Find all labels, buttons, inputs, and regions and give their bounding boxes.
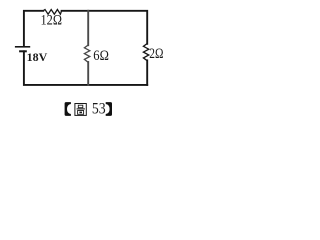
caption 圖 glyph middle stroke bbox=[77, 108, 85, 110]
wire middle branch top bbox=[87, 11, 89, 45]
wire left lower + bottom bbox=[24, 51, 147, 85]
svg-text:12Ω: 12Ω bbox=[41, 13, 63, 29]
svg-text:6Ω: 6Ω bbox=[93, 48, 109, 64]
wire right lower vertical bbox=[146, 60, 148, 85]
caption 圖 glyph bottom 回 bbox=[78, 111, 84, 115]
battery V1 short plate bbox=[20, 50, 26, 52]
wire top-right segment bbox=[62, 11, 148, 44]
svg-text:2Ω: 2Ω bbox=[149, 46, 163, 62]
caption 圖 glyph inner top 口 bbox=[78, 105, 83, 108]
caption right lenticular bracket 】 bbox=[106, 102, 112, 116]
wire middle branch bottom bbox=[87, 62, 89, 85]
resistor R1 12Ω zigzag bbox=[43, 10, 61, 15]
resistor R2 6Ω zigzag bbox=[84, 45, 89, 62]
wire left + top-left segment bbox=[24, 11, 43, 46]
caption left lenticular bracket 【 bbox=[65, 102, 71, 116]
caption 圖 glyph outer box bbox=[75, 104, 86, 116]
caption 圖 glyph bottom inner dot bbox=[79, 112, 82, 114]
battery V1 long plate bbox=[16, 46, 30, 48]
svg-text:18V: 18V bbox=[27, 50, 48, 64]
resistor R3 2Ω zigzag bbox=[143, 44, 148, 61]
svg-text:53: 53 bbox=[92, 99, 106, 118]
caption 圖 glyph bbox=[75, 104, 86, 116]
